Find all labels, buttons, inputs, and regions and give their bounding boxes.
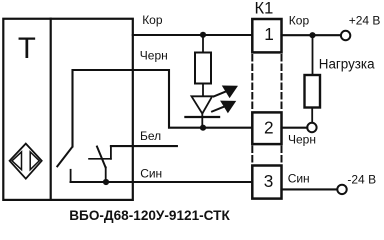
svg-text:+24 В: +24 В bbox=[349, 14, 381, 28]
switch S2 lower terminal bbox=[105, 167, 107, 182]
terminal -24V bbox=[337, 185, 346, 194]
wire bel stub bbox=[111, 145, 177, 147]
terminal 3 box bbox=[252, 166, 281, 199]
terminal 1 box bbox=[252, 19, 281, 52]
LED arrow 2 bbox=[212, 101, 235, 113]
svg-text:Т: Т bbox=[18, 32, 36, 65]
LED VD1 triangle bbox=[192, 96, 213, 113]
wire kor from terminal 1 to +24V bbox=[282, 34, 342, 36]
svg-text:2: 2 bbox=[264, 118, 274, 138]
terminal strip dashed left lower bbox=[251, 147, 253, 165]
switch S1 blade bbox=[57, 147, 72, 166]
svg-text:Син: Син bbox=[288, 172, 310, 186]
wire sin from terminal 3 to -24V bbox=[282, 188, 338, 190]
switch S2 upper step bbox=[110, 146, 112, 159]
wire R1 top lead bbox=[202, 35, 204, 53]
switch S1 bottom terminal bbox=[70, 170, 72, 182]
svg-text:Черн: Черн bbox=[140, 48, 168, 62]
wire R1 to LED bbox=[202, 84, 204, 97]
terminal strip dashed right upper bbox=[281, 55, 283, 111]
svg-text:Черн: Черн bbox=[288, 133, 316, 147]
junction kor load bbox=[309, 32, 315, 38]
switch S2 tick bbox=[89, 158, 111, 160]
sensor internal divider bbox=[50, 19, 52, 200]
svg-text:3: 3 bbox=[264, 171, 274, 191]
svg-text:Кор: Кор bbox=[289, 14, 310, 28]
wire chern: switch top terminal up and across to drop bbox=[73, 70, 253, 146]
svg-text:Бел: Бел bbox=[140, 129, 161, 143]
wire load top lead bbox=[312, 35, 314, 75]
svg-text:Кор: Кор bbox=[142, 13, 163, 27]
resistor R1 bbox=[195, 53, 211, 84]
svg-text:К1: К1 bbox=[255, 0, 274, 18]
resistor load bbox=[305, 75, 321, 108]
wire load bottom lead bbox=[311, 108, 313, 123]
terminal +24V bbox=[341, 31, 350, 40]
junction chern / LED bbox=[200, 125, 206, 131]
wire kor from sensor to terminal 1 bbox=[133, 34, 253, 36]
diamond right triangle bbox=[30, 152, 39, 170]
diamond left triangle bbox=[12, 152, 22, 170]
sensor body outline bbox=[3, 19, 133, 200]
junction kor / R1 bbox=[200, 32, 206, 38]
terminal strip dashed right lower bbox=[281, 147, 283, 165]
wire terminal 2 to chern circle bbox=[282, 127, 308, 129]
svg-text:1: 1 bbox=[264, 24, 274, 44]
junction sin bbox=[103, 179, 109, 185]
svg-text:Син: Син bbox=[140, 166, 162, 180]
wire sin inside box bbox=[71, 181, 253, 183]
terminal strip dashed left upper bbox=[251, 55, 253, 111]
LED arrow 1 bbox=[214, 86, 237, 98]
LED VD1 cathode bar bbox=[185, 116, 219, 118]
wire LED bottom lead bbox=[201, 114, 203, 128]
proximity sensor symbol diamond bbox=[10, 144, 42, 179]
switch S2 blade bbox=[97, 147, 106, 168]
svg-text:ВБО-Д68-120У-9121-СТК: ВБО-Д68-120У-9121-СТК bbox=[69, 208, 230, 223]
terminal chern circle bbox=[307, 123, 316, 132]
terminal 2 box bbox=[252, 112, 281, 144]
svg-text:-24 В: -24 В bbox=[347, 173, 376, 187]
svg-text:Нагрузка: Нагрузка bbox=[319, 57, 375, 72]
